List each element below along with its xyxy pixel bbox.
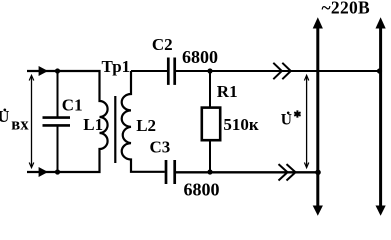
svg-text:C3: C3 [150, 138, 171, 157]
svg-text:6800: 6800 [182, 47, 218, 67]
svg-text:L2: L2 [136, 116, 156, 135]
svg-text:R1: R1 [217, 82, 238, 101]
svg-text:~220В: ~220В [322, 0, 371, 17]
svg-text:L1: L1 [83, 115, 103, 134]
svg-text:Тр1: Тр1 [102, 57, 131, 76]
svg-text:C2: C2 [152, 35, 173, 54]
svg-text:C1: C1 [62, 95, 83, 114]
svg-text:U: U [281, 112, 292, 129]
svg-text:6800: 6800 [184, 180, 220, 200]
svg-text:510к: 510к [223, 115, 259, 134]
svg-text:вх: вх [11, 115, 29, 134]
